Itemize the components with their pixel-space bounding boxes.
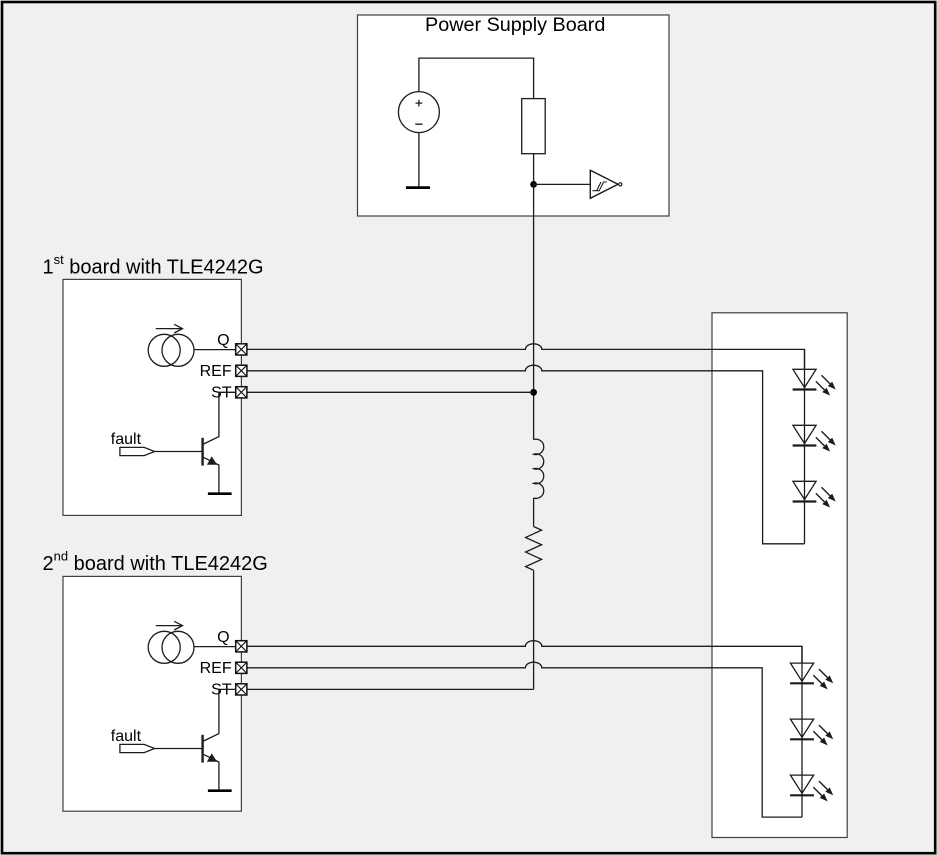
svg-text:REF: REF	[200, 660, 232, 677]
wire ST1 to transistor collector	[204, 392, 236, 444]
ground board1	[208, 492, 232, 495]
resistor psb	[522, 99, 546, 154]
svg-text:Q: Q	[217, 629, 229, 646]
wire ST1 to bus	[247, 391, 534, 393]
svg-text:fault: fault	[111, 431, 142, 448]
ground board2	[208, 789, 232, 792]
wire inductor to resistor	[533, 498, 535, 527]
wire resistor to node	[533, 154, 535, 185]
wire ST2 to bus	[247, 688, 534, 690]
wire REF1 return	[247, 365, 805, 544]
wire ST2 to transistor collector	[204, 689, 236, 741]
LED D5	[790, 719, 833, 745]
svg-text:ST: ST	[211, 682, 232, 699]
wire top rail psb	[419, 58, 534, 99]
terminal ST1	[236, 387, 247, 398]
LED D3	[793, 481, 836, 507]
svg-text:fault: fault	[111, 728, 142, 745]
wire Q2 to LED chain 2	[247, 641, 802, 663]
buffer U1 schmitt	[590, 170, 622, 198]
terminal REF1	[236, 365, 247, 376]
wire LED chain 1	[804, 349, 806, 543]
wire LED chain 2	[801, 646, 803, 817]
LED D6	[790, 775, 833, 801]
inductor L1	[534, 439, 544, 498]
board 2 box	[63, 576, 241, 811]
board 1 box	[63, 279, 241, 515]
wire I1 to Q1 terminal	[194, 349, 236, 351]
svg-text:ST: ST	[211, 385, 232, 402]
wire Q1 to LED chain 1	[247, 344, 805, 370]
resistor R1	[526, 527, 542, 571]
current source I1	[148, 334, 194, 366]
transistor T1	[203, 438, 219, 493]
transistor T2	[203, 735, 219, 790]
wire REF2 return	[247, 662, 802, 817]
LED D4	[790, 663, 833, 689]
terminal Q2	[236, 641, 247, 652]
ground psb	[406, 186, 430, 189]
wire I2 to Q2 terminal	[194, 646, 236, 648]
svg-text:Q: Q	[217, 332, 229, 349]
wire supply bus upper	[533, 184, 535, 439]
wire fault to base board2	[155, 748, 203, 750]
wire v-source to ground	[418, 133, 420, 187]
fault tag board1	[120, 447, 155, 455]
LED D1	[793, 369, 836, 395]
node bus ST1 junction	[530, 389, 537, 396]
voltage source V1	[398, 92, 439, 133]
node psb output	[530, 181, 537, 188]
LED board box	[712, 313, 847, 838]
arrow above I2	[156, 621, 183, 630]
wire fault to base board1	[155, 451, 203, 453]
current source I2	[148, 631, 194, 663]
LED D2	[793, 425, 836, 451]
svg-text:Power Supply Board: Power Supply Board	[425, 14, 605, 36]
terminal REF2	[236, 662, 247, 673]
svg-text:2nd board with TLE4242G: 2nd board with TLE4242G	[43, 549, 268, 575]
terminal Q1	[236, 344, 247, 355]
power supply board box	[358, 15, 670, 216]
svg-text:REF: REF	[200, 363, 232, 380]
arrow above I1	[156, 324, 183, 333]
terminal ST2	[236, 684, 247, 695]
wire node to buffer	[534, 183, 591, 185]
wire supply bus lower	[533, 570, 535, 689]
svg-text:1st board with TLE4242G: 1st board with TLE4242G	[43, 252, 264, 278]
fault tag board2	[120, 744, 155, 752]
